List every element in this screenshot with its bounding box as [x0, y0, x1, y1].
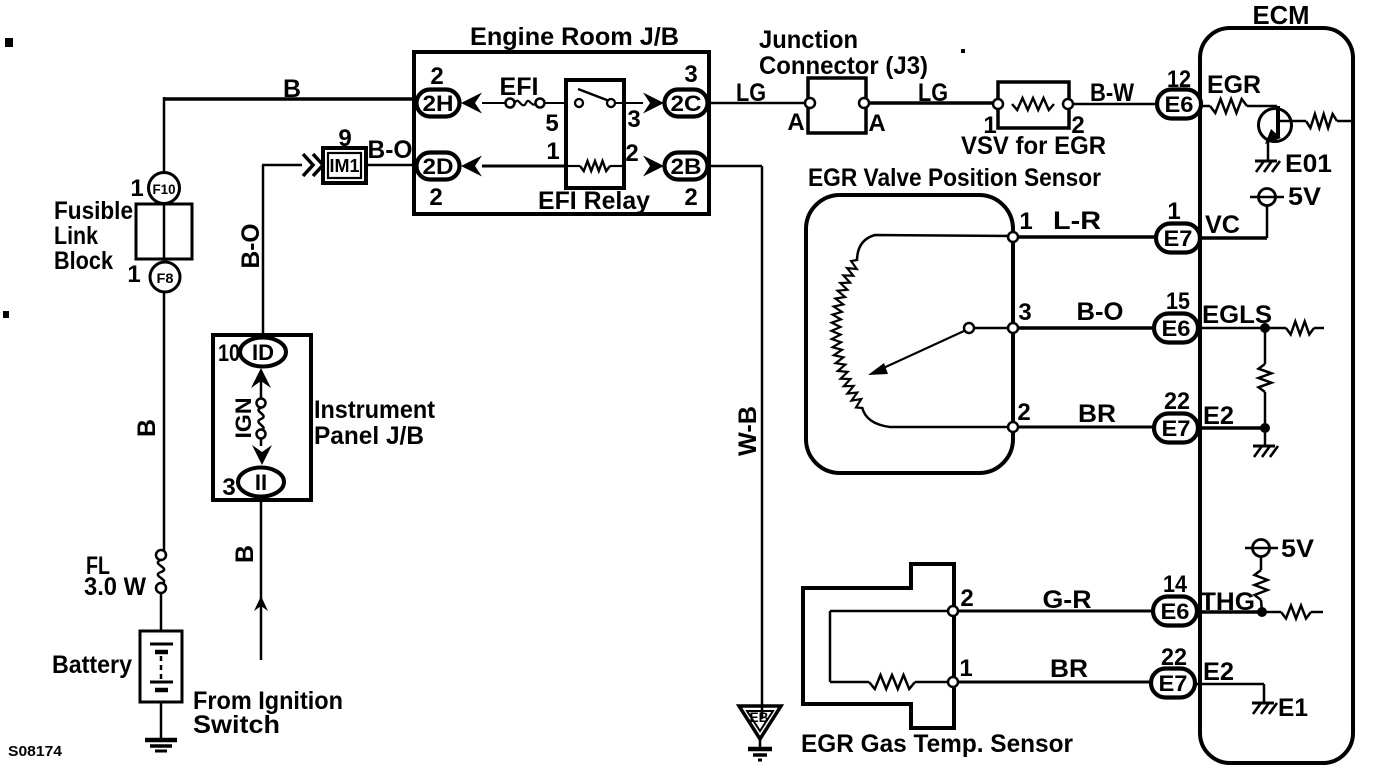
pin 1 of temp sensor: [948, 677, 958, 687]
svg-text:A: A: [787, 109, 804, 136]
wire track bottom to pin 2: [862, 407, 1013, 427]
svg-text:1: 1: [546, 138, 559, 165]
junction node EGLS: [1260, 323, 1270, 333]
svg-text:II: II: [255, 470, 267, 495]
engine room J/B: [414, 52, 709, 214]
wire G-R pin2 to E6: [958, 610, 1153, 613]
arrowhead into 2H: [461, 93, 482, 114]
connector 2D pin 2: [417, 153, 460, 180]
svg-text:E6: E6: [1165, 92, 1194, 117]
connector IM1 pin 9: [323, 148, 366, 183]
connector ID pin 10: [240, 338, 286, 367]
wire 2D to relay coil: [482, 165, 566, 168]
wiper arm: [879, 331, 964, 370]
svg-text:5: 5: [545, 110, 558, 137]
svg-text:VSV for EGR: VSV for EGR: [961, 132, 1106, 160]
battery: [140, 631, 182, 702]
svg-text:E7: E7: [1162, 416, 1191, 441]
connector E7 pin 22 E2 lower: [1151, 669, 1195, 698]
svg-text:2B: 2B: [671, 154, 702, 179]
svg-text:LG: LG: [918, 79, 948, 107]
connector E7 pin 22 E2: [1154, 414, 1198, 443]
ground EB: [739, 706, 781, 739]
svg-text:E6: E6: [1162, 316, 1191, 341]
svg-text:9: 9: [338, 125, 351, 152]
wire THG to junction: [1197, 610, 1262, 614]
fusible link F10: [149, 173, 180, 204]
connector 2H pin 2: [417, 90, 460, 117]
scan speck left: [3, 311, 9, 318]
wire relay to 2C: [615, 102, 643, 104]
svg-text:E7: E7: [1164, 226, 1193, 251]
chevrons into IM1: [303, 154, 313, 176]
svg-text:ECM: ECM: [1253, 0, 1310, 30]
wire battery to ground: [160, 702, 163, 740]
svg-text:1: 1: [1019, 208, 1032, 235]
pin 3 of position sensor: [1008, 323, 1018, 333]
arrowhead into 2D: [461, 156, 482, 177]
connector E6 pin 15 EGLS: [1154, 314, 1198, 343]
connector II pin 3: [238, 468, 284, 497]
junction node E2: [1260, 423, 1270, 433]
pin 2 of position sensor: [1008, 422, 1018, 432]
svg-text:22: 22: [1161, 644, 1187, 671]
resistor EGLS to right: [1265, 327, 1286, 330]
wire BR pin1 to E7: [958, 681, 1152, 684]
svg-text:IM1: IM1: [330, 156, 360, 176]
connector E6 pin 12 EGR: [1157, 90, 1201, 119]
connector 2C pin 3: [665, 90, 708, 117]
connector E7 pin 1 VC: [1156, 224, 1200, 253]
svg-text:E1: E1: [1278, 694, 1308, 722]
scan speck top left: [5, 38, 13, 47]
wire E2 to ground E1: [1195, 683, 1264, 686]
wire B-W VSV to E6: [1073, 103, 1158, 106]
svg-text:EFI Relay: EFI Relay: [538, 187, 650, 215]
svg-text:E2: E2: [1203, 658, 1234, 686]
svg-text:3: 3: [1018, 299, 1031, 326]
thermistor: [830, 610, 953, 613]
svg-text:EFI: EFI: [500, 73, 539, 101]
wire BR pin2 to E7: [1018, 426, 1155, 429]
svg-text:EGR Valve Position Sensor: EGR Valve Position Sensor: [808, 164, 1101, 192]
svg-text:E2: E2: [1203, 402, 1234, 430]
svg-text:2: 2: [1017, 399, 1030, 426]
svg-text:12: 12: [1167, 66, 1191, 93]
svg-text:5V: 5V: [1288, 183, 1321, 211]
svg-text:E7: E7: [1159, 671, 1188, 696]
svg-text:1: 1: [959, 655, 972, 682]
wire VC: [1200, 236, 1267, 240]
svg-text:14: 14: [1163, 571, 1188, 598]
svg-text:B: B: [283, 75, 301, 103]
resistor EGLS to E2: [1264, 332, 1267, 364]
svg-text:BR: BR: [1050, 655, 1088, 683]
svg-text:5V: 5V: [1281, 535, 1314, 563]
svg-text:F8: F8: [157, 270, 174, 286]
resistor 5V to THG: [1260, 557, 1263, 570]
relay switch: [578, 89, 612, 102]
svg-text:2: 2: [430, 63, 443, 90]
svg-text:F10: F10: [153, 181, 176, 197]
ECM: [1200, 28, 1353, 763]
connector E6 pin 14 THG: [1153, 597, 1197, 626]
pin 1 of VSV: [993, 99, 1003, 109]
svg-text:Panel J/B: Panel J/B: [314, 422, 424, 450]
fuse IGN: [251, 368, 271, 388]
ground at E2: [1264, 428, 1267, 446]
potentiometer track: [832, 260, 863, 408]
arrowhead: [254, 596, 268, 611]
svg-text:2D: 2D: [423, 154, 454, 179]
svg-text:Instrument: Instrument: [314, 396, 436, 424]
wire LG J3 to VSV: [869, 101, 998, 105]
svg-text:Connector (J3): Connector (J3): [759, 52, 928, 80]
svg-text:B: B: [133, 419, 161, 437]
svg-text:3: 3: [222, 474, 235, 501]
wire track top to pin 1: [857, 235, 1013, 261]
pin 2 of temp sensor: [948, 606, 958, 616]
node A right: [859, 98, 869, 108]
svg-text:ID: ID: [252, 340, 274, 365]
svg-text:Switch: Switch: [193, 711, 280, 739]
svg-text:Junction: Junction: [759, 26, 858, 54]
instrument panel J/B: [213, 335, 311, 500]
wire EGLS to junction: [1198, 327, 1265, 330]
svg-text:3: 3: [684, 61, 697, 88]
5V supply THG: [1245, 547, 1278, 550]
svg-text:L-R: L-R: [1053, 207, 1101, 235]
svg-text:Link: Link: [54, 222, 98, 250]
VSV for EGR: [998, 82, 1069, 128]
svg-text:EGR: EGR: [1207, 71, 1261, 99]
svg-text:B-O: B-O: [368, 136, 413, 164]
svg-text:B-O: B-O: [1077, 298, 1124, 326]
svg-text:10: 10: [218, 340, 240, 367]
svg-text:E6: E6: [1161, 599, 1190, 624]
wire from FL to battery: [160, 593, 163, 631]
svg-text:Battery: Battery: [52, 651, 132, 679]
svg-text:Engine Room J/B: Engine Room J/B: [470, 23, 679, 51]
pin 1 of position sensor: [1008, 232, 1018, 242]
junction node THG: [1257, 607, 1267, 617]
wire from ignition switch: [260, 496, 263, 660]
svg-text:2: 2: [429, 184, 442, 211]
svg-text:EGR Gas Temp. Sensor: EGR Gas Temp. Sensor: [801, 730, 1073, 758]
wire B from F8 to battery: [163, 292, 166, 552]
svg-text:Block: Block: [54, 247, 113, 275]
svg-text:15: 15: [1166, 288, 1190, 315]
svg-text:B-O: B-O: [237, 224, 265, 269]
svg-text:2: 2: [625, 140, 638, 167]
svg-text:1: 1: [127, 261, 140, 288]
svg-text:LG: LG: [736, 79, 766, 107]
svg-text:2: 2: [960, 585, 973, 612]
wire E2 to junction: [1198, 426, 1265, 430]
wire B-O from ID to IM1: [262, 165, 265, 338]
fusible link block: [136, 204, 192, 259]
wire W-B from 2B to ground EB: [707, 165, 762, 168]
EGR gas temp. sensor: [803, 564, 954, 728]
scan speck near J3: [961, 49, 965, 53]
resistor THG to right: [1262, 611, 1281, 614]
relay coil: [566, 165, 580, 167]
ground battery: [145, 738, 177, 743]
svg-text:2: 2: [684, 184, 697, 211]
fuse EFI: [482, 102, 506, 104]
ground E1: [1252, 702, 1274, 705]
svg-text:2C: 2C: [671, 91, 702, 116]
wire LG 2C to J3: [707, 102, 810, 105]
svg-text:Fusible: Fusible: [54, 197, 133, 225]
wire B-O from IM1 to 2D: [366, 164, 460, 167]
svg-text:S08174: S08174: [8, 743, 63, 760]
svg-text:22: 22: [1164, 388, 1190, 415]
svg-text:W-B: W-B: [734, 406, 762, 456]
svg-text:A: A: [868, 110, 885, 137]
transistor Q1: [1259, 109, 1292, 142]
connector 2B pin 2: [665, 153, 708, 180]
EFI relay: [566, 80, 624, 188]
svg-text:VC: VC: [1205, 211, 1240, 239]
svg-text:B-W: B-W: [1090, 79, 1134, 107]
wire B-O pin3 to E6: [1018, 326, 1155, 330]
fusible link FL 3.0 W: [156, 550, 166, 560]
resistor at EGR pin: [1201, 105, 1210, 108]
svg-text:IGN: IGN: [231, 398, 256, 439]
svg-text:2H: 2H: [423, 91, 454, 116]
node A left: [805, 98, 815, 108]
svg-text:BR: BR: [1078, 400, 1116, 428]
svg-text:G-R: G-R: [1043, 586, 1092, 614]
fusible link F8: [150, 262, 180, 292]
resistor to ECM edge: [1306, 114, 1337, 128]
pin 2 of VSV: [1063, 99, 1073, 109]
wire L-R pin1 to E7: [1018, 235, 1156, 239]
wire B from fusible link to 2H: [164, 97, 417, 101]
svg-text:B: B: [231, 545, 259, 563]
arrowhead into 2B: [643, 156, 664, 177]
svg-text:3.0 W: 3.0 W: [84, 573, 146, 601]
svg-text:1: 1: [1167, 198, 1180, 225]
svg-text:3: 3: [627, 106, 640, 133]
arrowhead into 2C: [643, 93, 664, 114]
5V supply VC: [1250, 196, 1284, 199]
svg-text:EB: EB: [750, 709, 769, 725]
ground E01: [1255, 160, 1277, 163]
svg-text:E01: E01: [1285, 150, 1332, 178]
